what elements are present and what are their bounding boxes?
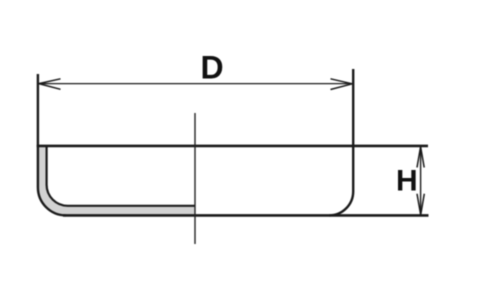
svg-text:D: D (201, 50, 224, 86)
svg-text:H: H (396, 164, 418, 197)
